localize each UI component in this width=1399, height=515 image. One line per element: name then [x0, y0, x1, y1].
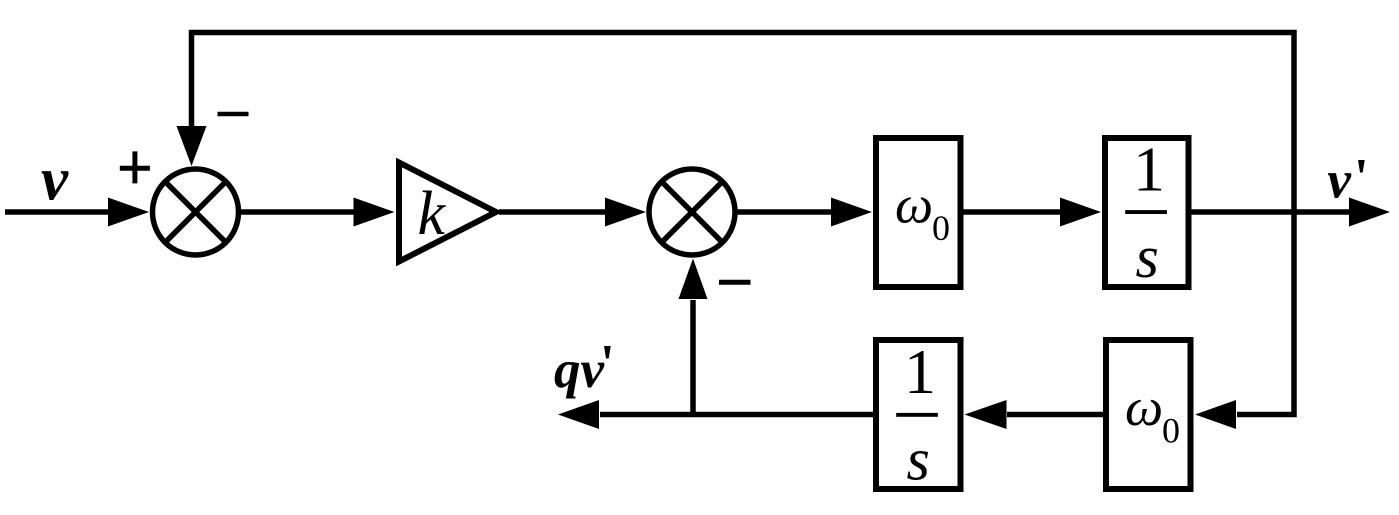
- wire junction up into S2 bottom input: [679, 259, 708, 415]
- minus sign at S1 top input: [218, 112, 249, 117]
- omega0 label top: [895, 174, 950, 248]
- wire S1 to gain k: [241, 198, 395, 227]
- block omega0 top: [876, 138, 961, 287]
- block 1/s bottom: [876, 340, 961, 489]
- svg-text:k: k: [418, 180, 447, 248]
- 1/s label bottom: [896, 336, 938, 493]
- node v' label: [1327, 149, 1368, 209]
- minus sign at S2 bottom input: [719, 280, 751, 285]
- svg-text:ω: ω: [895, 174, 933, 234]
- omega0 label bottom: [1125, 377, 1180, 451]
- svg-text:v: v: [1327, 151, 1351, 209]
- block omega0 bottom: [1106, 340, 1191, 489]
- svg-text:0: 0: [1162, 411, 1180, 451]
- wire w0 to 1/s (bottom): [965, 400, 1104, 429]
- svg-text:': ': [1354, 149, 1369, 207]
- 1/s label top: [1125, 134, 1167, 291]
- svg-text:ω: ω: [1125, 377, 1163, 437]
- summing junction S2: [649, 169, 735, 255]
- gain block k (triangle): [399, 163, 496, 262]
- wire 1/s bottom to qv' output: [558, 400, 873, 429]
- wire gain k to summer S2: [499, 198, 646, 227]
- svg-text:qv: qv: [554, 341, 605, 399]
- wire w0 to 1/s (top): [963, 198, 1101, 227]
- wire output v': [1191, 198, 1390, 227]
- node qv' label: [554, 335, 615, 399]
- plus sign at summer S1: [120, 151, 150, 183]
- svg-text:s: s: [907, 427, 930, 493]
- summing junction S1: [153, 169, 239, 255]
- wire input v: [5, 198, 149, 227]
- svg-text:v: v: [41, 147, 69, 214]
- svg-text:1: 1: [1133, 134, 1165, 205]
- block 1/s top: [1105, 138, 1189, 287]
- svg-text:0: 0: [932, 208, 950, 248]
- svg-text:s: s: [1136, 224, 1159, 290]
- wire S2 to block w0 (top): [737, 198, 872, 227]
- svg-text:': ': [600, 335, 615, 393]
- wire feedback from v' node: up over the top, down into S1: [177, 33, 1295, 430]
- svg-text:1: 1: [904, 336, 936, 407]
